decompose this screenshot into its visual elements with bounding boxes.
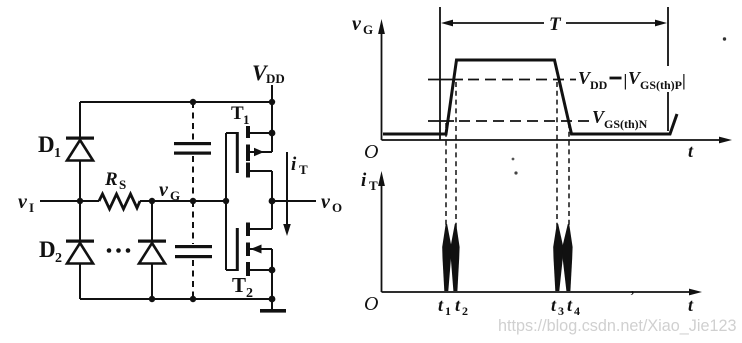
svg-text:1: 1 — [54, 146, 61, 161]
svg-text:3: 3 — [558, 304, 564, 318]
svg-text:|: | — [624, 71, 628, 90]
svg-text:GS(th)P: GS(th)P — [640, 78, 682, 92]
svg-text:v: v — [18, 191, 28, 213]
svg-text:T: T — [369, 178, 378, 193]
svg-text:I: I — [29, 200, 34, 215]
svg-text:DD: DD — [266, 71, 285, 86]
svg-text:O: O — [364, 293, 378, 315]
svg-text:i: i — [361, 170, 367, 191]
svg-text:i: i — [291, 154, 297, 175]
svg-text:G: G — [363, 22, 373, 37]
svg-text:v: v — [352, 13, 362, 35]
svg-text:T: T — [549, 14, 562, 35]
svg-text:T: T — [299, 162, 308, 177]
svg-text:2: 2 — [55, 251, 62, 266]
svg-text:R: R — [104, 169, 118, 190]
svg-text:2: 2 — [246, 286, 253, 301]
svg-text:D: D — [39, 237, 56, 262]
svg-text:GS(th)N: GS(th)N — [604, 117, 648, 131]
svg-text:’: ’ — [630, 289, 635, 304]
svg-text:|: | — [682, 71, 686, 90]
svg-text:v: v — [321, 191, 331, 213]
svg-text:https://blog.csdn.net/Xiao_Jie: https://blog.csdn.net/Xiao_Jie123 — [498, 317, 736, 335]
svg-text:1: 1 — [445, 304, 451, 318]
svg-text:1: 1 — [243, 112, 250, 127]
svg-text:D: D — [38, 132, 55, 157]
svg-text:DD: DD — [590, 78, 608, 92]
svg-text:T: T — [232, 273, 246, 297]
svg-text:S: S — [119, 177, 126, 192]
svg-text:4: 4 — [574, 304, 580, 318]
svg-text:G: G — [170, 188, 180, 203]
svg-text:2: 2 — [462, 304, 468, 318]
svg-text:O: O — [364, 141, 378, 163]
svg-text:O: O — [332, 200, 342, 215]
svg-text:v: v — [159, 179, 169, 201]
